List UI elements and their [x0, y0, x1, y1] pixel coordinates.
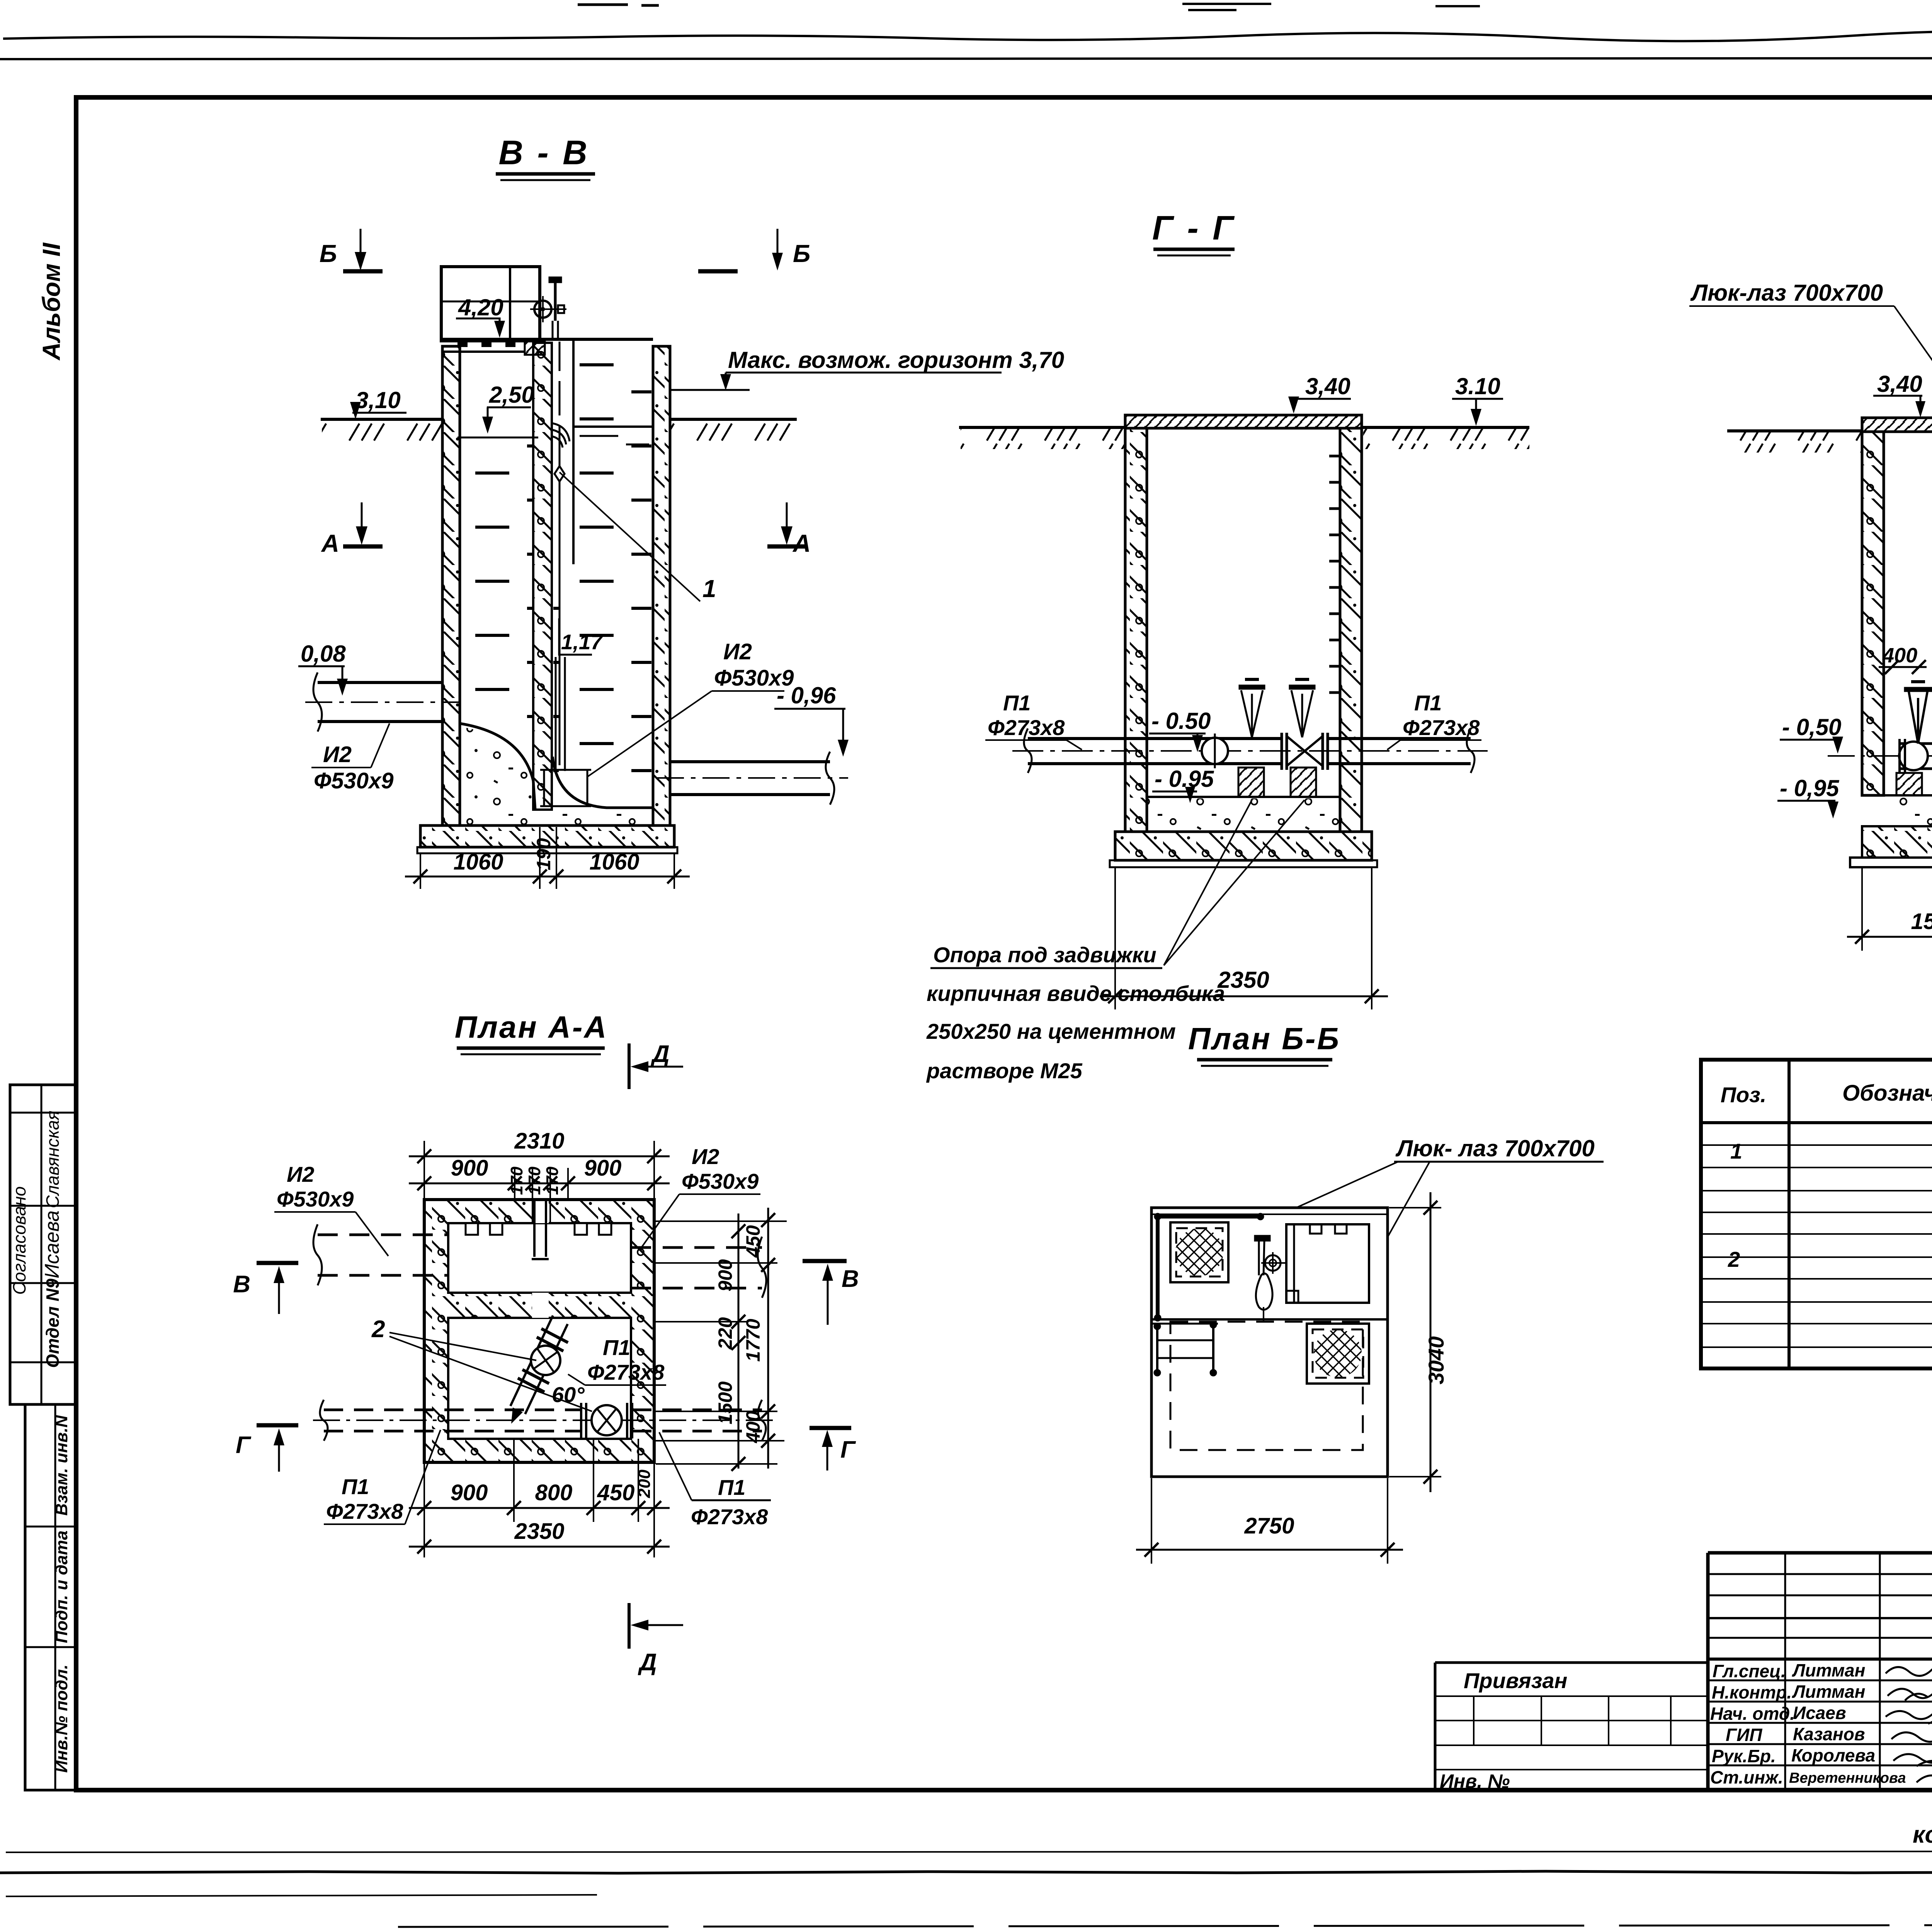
B-B weir overflow arcs [552, 423, 570, 448]
label 400 D-D [1879, 644, 1927, 674]
vertical label: Альбом II [37, 242, 65, 361]
B-B right wall [653, 346, 670, 825]
svg-text:900: 900 [714, 1259, 736, 1292]
section mark B left [320, 229, 383, 271]
B-B bottom footing [417, 825, 677, 853]
svg-text:1500: 1500 [1911, 909, 1932, 934]
G-G valve stands [1239, 679, 1315, 737]
svg-text:Г: Г [840, 1436, 856, 1463]
svg-text:Славянская: Славянская [43, 1111, 63, 1208]
svg-text:Королева: Королева [1791, 1745, 1875, 1765]
svg-text:2350: 2350 [514, 1519, 564, 1544]
left margin stamp table upper [10, 1085, 77, 1404]
G-G flow device circle [1202, 734, 1228, 768]
svg-text:0,08: 0,08 [301, 641, 346, 667]
svg-text:Привязан: Привязан [1464, 1668, 1567, 1693]
plan A-A bottom dimensions [409, 1439, 670, 1557]
plan A-A right dimensions [656, 1208, 787, 1471]
svg-text:Ф273х8: Ф273х8 [587, 1360, 665, 1384]
section B-B title [496, 133, 595, 180]
label I2 F530x9 plan right [641, 1144, 760, 1248]
plan A-A walls [424, 1200, 654, 1462]
label -0,50 D-D [1780, 714, 1843, 754]
svg-text:П1: П1 [1414, 691, 1442, 715]
G-G pipe [1012, 728, 1488, 773]
top paper edge wavy line [3, 31, 1932, 41]
G-G interior floor [1147, 797, 1340, 831]
label -0,95 D-D [1777, 775, 1840, 819]
svg-text:П1: П1 [603, 1335, 630, 1360]
B-B water level line left [457, 437, 538, 439]
B-B superstructure box [441, 267, 540, 341]
svg-text:Ст.инж.: Ст.инж. [1710, 1767, 1783, 1787]
B-B top slab [441, 339, 653, 355]
svg-text:- 0,95: - 0,95 [1780, 775, 1840, 801]
D-D left chamber footing [1862, 826, 1932, 858]
title block grid [1708, 1553, 1932, 1790]
svg-text:Макс. возмож. горизонт 3,70: Макс. возмож. горизонт 3,70 [728, 347, 1064, 373]
G-G top slab [1125, 415, 1362, 428]
parts table grid [1701, 1060, 1932, 1368]
svg-text:Литман: Литман [1792, 1682, 1865, 1702]
svg-text:170: 170 [543, 1166, 562, 1195]
label I2 F530x9 plan left [274, 1162, 388, 1256]
svg-text:Б: Б [320, 240, 337, 267]
plan A-A mark G left [236, 1425, 298, 1472]
label 3,40 D-D [1873, 371, 1925, 417]
label -0.95 [1152, 766, 1214, 803]
svg-text:Обозначение: Обозначение [1842, 1081, 1932, 1106]
svg-text:2: 2 [1728, 1247, 1740, 1271]
plan B-B handrail [1154, 1213, 1264, 1321]
plan B-B outline [1151, 1208, 1388, 1477]
label -0.50 [1149, 708, 1211, 752]
plan B-B dashed chamber [1170, 1322, 1363, 1450]
title block signatures squiggles [1886, 1667, 1932, 1813]
B-B right compartment water level [573, 427, 653, 444]
B-B inlet pipe left [305, 672, 460, 732]
plan A-A inlet pipe dashed right [631, 1237, 766, 1298]
svg-text:Инв. №: Инв. № [1440, 1770, 1510, 1792]
G-G ground line left [959, 427, 1125, 449]
svg-text:Д: Д [638, 1649, 657, 1676]
top border line [0, 58, 1932, 59]
label P1 F273x8 left G-G [985, 691, 1082, 750]
svg-text:400: 400 [742, 1411, 764, 1443]
svg-text:И2: И2 [692, 1144, 719, 1169]
plan A-A diagonal pipe [510, 1316, 568, 1424]
privyazan block [1435, 1663, 1708, 1790]
bottom annotations [1913, 1799, 1932, 1848]
plan A-A mark V left [233, 1263, 298, 1314]
svg-text:Г - Г: Г - Г [1152, 209, 1236, 247]
svg-text:3040: 3040 [1424, 1336, 1448, 1385]
svg-text:1,17: 1,17 [561, 630, 603, 654]
svg-text:2310: 2310 [514, 1128, 564, 1154]
label P1 F273x8 plan middle [568, 1335, 666, 1385]
label max horizon 3,70 [671, 347, 1064, 390]
svg-text:План Б-Б: План Б-Б [1188, 1021, 1340, 1056]
svg-text:170: 170 [525, 1166, 544, 1195]
plan B-B title [1188, 1021, 1340, 1066]
G-G dimension 2350 [1100, 868, 1388, 1009]
svg-text:Альбом II: Альбом II [37, 242, 65, 361]
svg-text:Исаев: Исаев [1793, 1703, 1846, 1723]
left margin handwritten entries [9, 1111, 63, 1368]
D-D ground line left [1727, 431, 1862, 453]
label 60deg [552, 1382, 585, 1407]
parts table rows text [1728, 1137, 1932, 1372]
B-B dimension 1060 190 1060 [405, 827, 690, 889]
plan A-A mark V right [803, 1261, 859, 1325]
plan A-A bottom pipe dashed [313, 1400, 773, 1441]
svg-text:3.10: 3.10 [1455, 373, 1500, 399]
svg-text:Инв.№ подл.: Инв.№ подл. [52, 1664, 71, 1773]
svg-text:2: 2 [371, 1316, 385, 1343]
svg-text:Нач. отд.: Нач. отд. [1710, 1704, 1795, 1724]
D-D pipe [1828, 744, 1932, 769]
svg-text:Казанов: Казанов [1793, 1724, 1865, 1744]
label -0,96 [774, 682, 849, 757]
bottom paper lines [6, 1851, 1932, 1852]
note Opora pod zadvizhki [926, 800, 1304, 1083]
svg-text:П1: П1 [342, 1474, 369, 1499]
B-B pos.1 leader [560, 472, 716, 602]
svg-text:ГИП: ГИП [1726, 1725, 1762, 1745]
svg-text:Веретенникова: Веретенникова [1789, 1770, 1906, 1786]
D-D dimensions 1500 220 900 [1847, 826, 1932, 951]
top edge small dashes [578, 5, 659, 5]
svg-text:170: 170 [507, 1166, 526, 1195]
B-B concrete fill left compartment [460, 723, 535, 825]
svg-text:900: 900 [451, 1156, 488, 1181]
svg-text:1060: 1060 [589, 849, 639, 875]
B-B ground line right [670, 419, 797, 441]
plan B-B valve stem symbol [1254, 1235, 1285, 1322]
svg-text:Опора под задвижки: Опора под задвижки [933, 943, 1156, 967]
D-D base plate [1850, 858, 1932, 867]
svg-text:Люк-лаз 700х700: Люк-лаз 700х700 [1690, 280, 1883, 306]
svg-text:- 0.95: - 0.95 [1155, 766, 1214, 792]
label 2,50 [482, 382, 534, 434]
D-D brick supports [1896, 773, 1932, 795]
svg-text:кирпичная ввиде столбика: кирпичная ввиде столбика [927, 981, 1225, 1006]
svg-text:1770: 1770 [742, 1319, 764, 1362]
section mark B right [698, 229, 810, 271]
plan B-B gate frame [1286, 1224, 1369, 1303]
svg-text:4,20: 4,20 [458, 294, 503, 320]
section mark A right [767, 502, 811, 557]
svg-text:В: В [233, 1271, 250, 1298]
plan B-B dimension 3040 [1389, 1192, 1441, 1492]
svg-text:Ф530х9: Ф530х9 [682, 1169, 759, 1193]
svg-text:Отдел N9: Отдел N9 [43, 1278, 63, 1368]
plan B-B ladder [1152, 1321, 1218, 1376]
svg-text:Ф273х8: Ф273х8 [1403, 715, 1480, 740]
svg-text:Д: Д [650, 1041, 670, 1067]
svg-text:190: 190 [533, 838, 554, 870]
B-B ground line left [321, 419, 442, 441]
left margin stamp table lower [25, 1404, 77, 1790]
label 3.10 G-G [1452, 373, 1503, 426]
G-G brick supports [1238, 768, 1316, 797]
B-B central wall [533, 339, 573, 810]
label 0,08 [298, 641, 348, 696]
svg-text:800: 800 [535, 1480, 573, 1505]
svg-text:450: 450 [742, 1225, 764, 1258]
label 3,40 G-G [1288, 373, 1351, 414]
D-D top slab left chamber [1862, 418, 1932, 432]
parts table header text [1721, 1071, 1932, 1116]
svg-text:- 0,50: - 0,50 [1782, 714, 1841, 740]
label lyuk-laz 700x700 plan B-B [1213, 1135, 1604, 1333]
label P1 F273x8 plan bottom left [324, 1430, 440, 1524]
B-B left wall [442, 346, 460, 825]
G-G footing [1110, 832, 1377, 867]
G-G ladder rungs [1329, 456, 1340, 693]
label I2 F530x9 left [311, 723, 394, 793]
B-B water hatch right compartment [553, 348, 651, 792]
svg-text:- 0,96: - 0,96 [777, 682, 836, 708]
label 3,10 [350, 387, 406, 419]
svg-text:П1: П1 [1003, 691, 1031, 715]
D-D valve stands [1904, 682, 1932, 744]
G-G left wall [1125, 428, 1147, 832]
title block signature rows [1710, 1660, 1906, 1787]
svg-text:А: А [321, 529, 339, 557]
svg-text:Ф273х8: Ф273х8 [326, 1499, 403, 1523]
svg-text:Ф530х9: Ф530х9 [277, 1187, 354, 1211]
plan A-A diagonal valve [531, 1346, 560, 1375]
svg-text:Б: Б [793, 240, 810, 267]
svg-text:3,10: 3,10 [355, 387, 401, 413]
plan B-B hatch square 1 [1170, 1222, 1228, 1282]
svg-text:А: А [792, 529, 811, 557]
svg-text:Литман: Литман [1792, 1660, 1865, 1680]
svg-text:2,50: 2,50 [489, 382, 534, 408]
D-D left wall [1862, 432, 1884, 795]
svg-text:И2: И2 [287, 1162, 314, 1186]
G-G right wall [1340, 428, 1362, 832]
plan A-A top dimension 2310 [409, 1141, 670, 1223]
svg-text:копировал: копировал [1913, 1821, 1932, 1848]
svg-text:2750: 2750 [1244, 1513, 1294, 1539]
G-G ground line right [1362, 427, 1529, 449]
svg-text:220: 220 [714, 1317, 736, 1350]
svg-text:3,40: 3,40 [1305, 373, 1350, 399]
section mark A left [321, 502, 383, 557]
svg-text:Г: Г [236, 1432, 252, 1459]
B-B outlet pipe right [657, 752, 848, 805]
label pos 2 with leaders [371, 1316, 592, 1411]
plan B-B hatch square 2 [1307, 1324, 1369, 1384]
svg-text:В - В: В - В [498, 133, 589, 172]
plan A-A central slot [532, 1201, 549, 1259]
svg-text:В: В [842, 1266, 859, 1292]
svg-text:П1: П1 [718, 1475, 745, 1499]
svg-text:400: 400 [1882, 644, 1917, 667]
svg-text:Ф273х8: Ф273х8 [988, 715, 1065, 740]
label I2 F530x9 right [587, 639, 794, 777]
svg-text:- 0.50: - 0.50 [1151, 708, 1211, 734]
svg-text:1500: 1500 [714, 1381, 736, 1424]
svg-text:900: 900 [584, 1156, 622, 1181]
B-B level label 1,17 [559, 618, 603, 655]
label P1 F273x8 right G-G [1387, 691, 1481, 750]
svg-text:растворе М25: растворе М25 [926, 1059, 1083, 1083]
G-G valve [1282, 733, 1328, 770]
svg-text:Гл.спец.: Гл.спец. [1713, 1661, 1786, 1681]
plan A-A inlet pipe dashed left [313, 1224, 448, 1285]
D-D pipe bell flange [1899, 739, 1928, 773]
D-D left chamber floor [1884, 795, 1932, 826]
svg-text:200: 200 [635, 1469, 654, 1498]
svg-text:900: 900 [451, 1480, 488, 1505]
svg-text:1060: 1060 [453, 849, 503, 875]
svg-text:Ф530х9: Ф530х9 [314, 768, 394, 793]
svg-text:Поз.: Поз. [1721, 1082, 1767, 1107]
svg-text:Рук.Бр.: Рук.Бр. [1712, 1746, 1776, 1766]
svg-text:Люк- лаз 700х700: Люк- лаз 700х700 [1395, 1135, 1595, 1161]
svg-text:И2: И2 [323, 742, 352, 767]
svg-text:Взам. инв.N: Взам. инв.N [52, 1415, 71, 1516]
plan A-A title [455, 1010, 608, 1054]
label lyuk-laz 700x700 D-D [1689, 280, 1932, 414]
svg-text:Подп. и дата: Подп. и дата [52, 1530, 71, 1643]
svg-text:1: 1 [702, 575, 716, 602]
label P1 F273x8 plan bottom right [659, 1432, 771, 1529]
svg-text:3,40: 3,40 [1877, 371, 1922, 397]
svg-text:250х250 на цементном: 250х250 на цементном [926, 1019, 1176, 1043]
svg-text:План А-А: План А-А [455, 1010, 608, 1044]
B-B water hatch left compartment [462, 441, 533, 727]
plan A-A mark D top [629, 1041, 683, 1089]
plan A-A upper chamber notches [466, 1223, 611, 1235]
svg-text:Согласовано: Согласовано [9, 1186, 29, 1295]
plan A-A mark D bottom [629, 1603, 683, 1676]
svg-text:450: 450 [597, 1480, 635, 1505]
plan A-A bottom pipe valve [581, 1403, 632, 1438]
svg-text:Исаева: Исаева [41, 1210, 63, 1278]
B-B channel curve right compartment [553, 757, 653, 825]
svg-text:Н.контр.: Н.контр. [1712, 1682, 1792, 1702]
B-B gate actuator above slab [530, 277, 566, 339]
plan A-A mark G right [810, 1428, 856, 1470]
svg-text:И2: И2 [723, 639, 752, 664]
section G-G title [1152, 209, 1236, 255]
svg-text:2350: 2350 [1217, 967, 1269, 993]
svg-text:1: 1 [1730, 1139, 1742, 1163]
svg-text:Ф273х8: Ф273х8 [691, 1505, 768, 1529]
label 4,20 [456, 294, 505, 338]
plan B-B dimension 2750 [1136, 1478, 1403, 1564]
B-B gate rod [540, 342, 591, 806]
